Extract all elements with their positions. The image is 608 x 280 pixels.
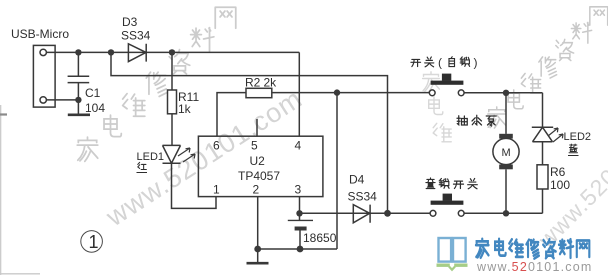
resistor R2 — [246, 88, 272, 97]
capacitor C1 — [68, 52, 90, 114]
svg-text:R6: R6 — [550, 165, 566, 179]
svg-text:SS34: SS34 — [348, 190, 378, 204]
wire child switch to pump bottom — [464, 212, 542, 214]
junction node pump top — [503, 90, 509, 96]
child lock switch right terminal — [458, 210, 464, 216]
pin 6 wire / R2 left — [217, 93, 246, 137]
LED1 arrows — [178, 148, 195, 162]
logo book icon — [439, 238, 466, 262]
label 开关（自锁） power switch — [411, 56, 478, 70]
wire bypass USB to pump — [111, 52, 388, 213]
svg-text:3: 3 — [295, 183, 302, 197]
wire switch to LED2 top — [464, 92, 542, 94]
junction node VBUS-C1 — [75, 49, 81, 55]
svg-text:U2: U2 — [250, 154, 266, 168]
wire R11 to LED1 — [171, 114, 173, 146]
motor brush cap top — [499, 134, 513, 139]
pump top lead — [505, 93, 507, 134]
svg-text:2: 2 — [253, 183, 260, 197]
pin 2 wire — [257, 197, 259, 263]
battery neg lead — [299, 230, 301, 250]
logo text 家电维修资料网 — [476, 239, 589, 259]
label 抽水泵 pump — [457, 115, 496, 126]
svg-text:LED1: LED1 — [137, 151, 165, 163]
svg-text:SS34: SS34 — [121, 29, 151, 43]
power switch left terminal — [429, 90, 435, 96]
wire battery+ to D4 — [300, 212, 388, 214]
diode D4 — [353, 205, 370, 223]
figure number 1 circle — [81, 231, 103, 253]
diode D3 — [128, 44, 146, 62]
svg-text:18650: 18650 — [303, 231, 337, 245]
svg-text:4: 4 — [295, 139, 302, 153]
wire R11 top — [171, 52, 173, 90]
child lock switch left terminal — [430, 210, 436, 216]
junction node battery plus pin3 — [296, 210, 302, 216]
LED2 top lead — [542, 93, 544, 127]
power switch button — [442, 74, 451, 81]
junction node gnd-pin2 — [254, 246, 261, 253]
svg-text:2k: 2k — [264, 76, 278, 90]
svg-text:LED2: LED2 — [564, 131, 592, 143]
pump bottom lead — [505, 169, 507, 213]
wire R6 bottom — [542, 189, 544, 213]
wire D4 to child switch — [388, 212, 431, 214]
svg-text:C1: C1 — [85, 86, 101, 100]
logo book base green — [437, 265, 468, 270]
svg-text:TP4057: TP4057 — [238, 169, 280, 183]
svg-text:1: 1 — [213, 183, 220, 197]
svg-text:M: M — [502, 147, 511, 159]
svg-text:1: 1 — [89, 232, 99, 252]
label 红 red — [138, 162, 147, 169]
resistor R6 — [537, 165, 548, 189]
motor brush cap bottom — [499, 165, 513, 170]
USB pin 1 — [40, 49, 46, 55]
wire pin4 drop — [298, 52, 300, 136]
wire LED1 to pin1 — [172, 163, 217, 208]
ground U2 pin2 — [247, 262, 269, 265]
svg-text:(: ( — [438, 56, 442, 70]
svg-text:5: 5 — [251, 139, 258, 153]
junction node D3out-R11 — [169, 49, 175, 55]
junction node VBUS-bypass — [108, 49, 114, 55]
USB connector J1 — [33, 45, 55, 107]
junction node R2-gnd — [334, 89, 340, 95]
power switch right terminal — [458, 90, 464, 96]
svg-text:1k: 1k — [178, 102, 192, 116]
watermark 家电维修资料网 left — [77, 7, 236, 161]
wire gnd horizontal — [258, 248, 337, 250]
watermark www.520101.com bottom right — [532, 96, 608, 253]
svg-text:USB-Micro: USB-Micro — [11, 27, 69, 41]
watermark 家电维修资料网 top right — [488, 7, 608, 128]
LED2 arrows — [548, 128, 563, 142]
svg-text:): ) — [474, 56, 478, 70]
watermark fragment 家电维 mid right — [423, 72, 452, 142]
USB pin 2 — [40, 97, 46, 103]
IC U2 TP4057 — [198, 136, 323, 196]
label 蓝 blue — [569, 144, 577, 153]
wire R2 right to switch — [272, 92, 430, 94]
svg-text:www.520101.com: www.520101.com — [476, 260, 592, 274]
svg-text:D3: D3 — [122, 15, 138, 29]
pin 3 wire — [299, 197, 301, 220]
label 童锁开关 child lock switch — [426, 178, 477, 189]
junction node battery neg — [297, 246, 304, 253]
watermark www.520101.com center — [100, 83, 308, 232]
junction node D4 cathode — [384, 210, 391, 217]
motor M circle — [493, 138, 519, 164]
junction node pump bottom — [503, 210, 509, 216]
wire LED2 to R6 — [542, 142, 544, 165]
svg-text:100: 100 — [550, 178, 570, 192]
wire VBUS top — [46, 51, 299, 53]
junction node C1-USBgnd — [75, 97, 81, 103]
child lock switch button — [443, 194, 452, 201]
battery 18650 — [288, 219, 313, 221]
svg-text:104: 104 — [85, 101, 105, 115]
LED D1 LED1 — [163, 145, 181, 163]
svg-text:6: 6 — [213, 139, 220, 153]
resistor R11 — [168, 90, 177, 114]
wire gnd drop x337 — [336, 93, 338, 249]
svg-text:R2: R2 — [245, 76, 261, 90]
svg-text:D4: D4 — [349, 173, 365, 187]
wire USB gnd to C1 — [46, 99, 78, 101]
LED D2 LED2 — [532, 127, 553, 142]
pin 5 stub — [256, 119, 258, 136]
ground C1 — [68, 114, 90, 117]
scan edge artifacts — [0, 105, 2, 275]
